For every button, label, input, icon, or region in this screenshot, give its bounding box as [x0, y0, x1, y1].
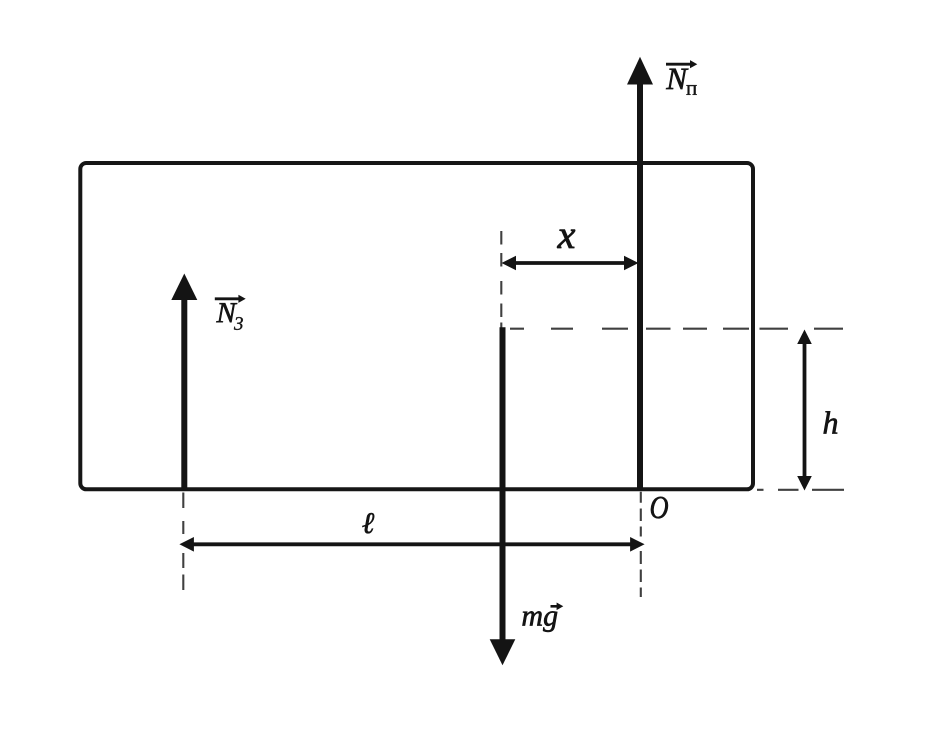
- label ell (length): [362, 513, 374, 533]
- label h (height): [824, 411, 838, 433]
- dashed horizontal at bottom right edge: [757, 489, 844, 491]
- force mg (vertical down from centre of gravity): [490, 327, 516, 665]
- label N_p (vector N sub p): [666, 60, 697, 95]
- label mg (vector): [522, 603, 563, 632]
- label N_3 (vector N sub 3): [215, 295, 246, 330]
- label O (pivot point): [651, 497, 668, 519]
- dimension arrow l (double headed): [179, 537, 644, 552]
- label x (distance): [557, 230, 575, 248]
- dashed horizontal through centre of gravity: [510, 328, 843, 330]
- dashed vertical below N3 foot: [182, 493, 184, 591]
- block outline (rounded rectangle of the plate): [80, 163, 753, 489]
- dashed vertical above centre of gravity: [500, 231, 502, 328]
- force N_3 (vertical up at left): [171, 274, 197, 491]
- dashed vertical below O: [640, 492, 642, 597]
- dimension arrow h (double headed, vertical): [797, 330, 812, 491]
- force N_p (vertical up through right part): [627, 57, 653, 490]
- dimension arrow x (double headed): [502, 256, 639, 271]
